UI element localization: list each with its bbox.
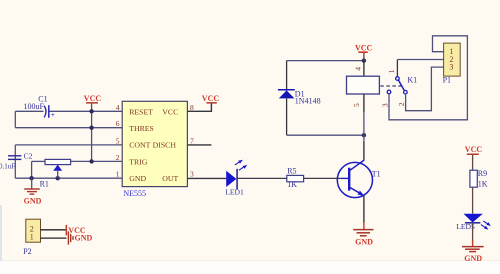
ground (under LED5) <box>462 240 484 263</box>
LED LED1 <box>225 160 247 197</box>
svg-text:1: 1 <box>30 233 34 242</box>
wire P2 pin1 to GND <box>41 237 67 239</box>
capacitor C2 <box>0 151 33 170</box>
svg-text:100uF: 100uF <box>24 102 45 111</box>
capacitor C1 <box>24 95 55 119</box>
ground (P2, rotated) <box>68 231 92 244</box>
wire 555 pin7 stub <box>187 144 211 146</box>
svg-text:+: + <box>51 111 55 119</box>
svg-text:GND: GND <box>24 196 42 205</box>
wire contact pin1 to P1 pin2 <box>397 59 443 61</box>
relay K1 coil <box>347 61 418 136</box>
wire D1 top line to VCC node <box>287 60 364 62</box>
wire R9 to LED5 <box>472 187 474 214</box>
svg-text:VCC: VCC <box>355 43 373 52</box>
svg-text:OUT: OUT <box>162 174 178 183</box>
svg-text:P2: P2 <box>23 247 31 256</box>
svg-text:LED1: LED1 <box>225 188 244 197</box>
wire 555 pin3 to LED1 <box>187 177 226 179</box>
svg-text:4: 4 <box>116 103 120 112</box>
svg-text:1: 1 <box>116 170 120 179</box>
wire R1 left lead down <box>31 161 33 178</box>
power VCC (relay) <box>355 43 373 60</box>
svg-text:T1: T1 <box>372 170 381 179</box>
power VCC (555 pin 8) <box>202 94 220 104</box>
relay contacts <box>380 60 407 108</box>
svg-text:2: 2 <box>116 153 120 162</box>
svg-text:K1: K1 <box>407 75 417 84</box>
wire VCC junction vertical x91.6 <box>91 103 93 161</box>
junction VCC/RESET node <box>89 109 93 113</box>
svg-text:1K: 1K <box>287 180 297 189</box>
svg-text:R9: R9 <box>478 169 487 178</box>
power VCC (right column) <box>465 145 483 170</box>
wire P2 pin2 to VCC <box>41 229 66 231</box>
svg-text:1K: 1K <box>478 179 488 188</box>
svg-text:CONT: CONT <box>129 141 150 150</box>
svg-text:VCC: VCC <box>84 94 102 103</box>
transistor T1 <box>337 135 380 222</box>
svg-text:5: 5 <box>116 136 120 145</box>
junction THRES node <box>89 126 93 130</box>
svg-text:NE555: NE555 <box>123 189 146 198</box>
wire RESET line y111 <box>15 110 122 112</box>
svg-text:C2: C2 <box>24 151 33 160</box>
svg-text:VCC: VCC <box>465 145 483 154</box>
svg-text:GND: GND <box>355 237 373 246</box>
junction R1 wiper to GND line <box>56 176 60 180</box>
power VCC (P2, rotated) <box>66 225 86 236</box>
svg-text:GND: GND <box>464 254 482 263</box>
diode D1 1N4148 <box>278 61 321 136</box>
svg-text:7: 7 <box>190 136 194 145</box>
connector P1 <box>443 43 461 84</box>
potentiometer R1 <box>40 159 71 188</box>
svg-text:1: 1 <box>387 69 396 73</box>
svg-text:R5: R5 <box>287 167 296 176</box>
svg-text:P1: P1 <box>443 75 451 84</box>
svg-text:6: 6 <box>116 119 120 128</box>
svg-text:RESET: RESET <box>129 107 153 116</box>
ground (under T1) <box>353 222 373 246</box>
resistor R5 <box>287 167 304 190</box>
wire LED5 to GND <box>472 223 474 241</box>
svg-text:GND: GND <box>129 174 146 183</box>
svg-text:VCC: VCC <box>202 94 220 103</box>
relay K1 mechanical link dashes <box>380 85 402 87</box>
wire 555 pin8 to VCC <box>187 103 211 111</box>
svg-text:8: 8 <box>190 103 194 112</box>
ground (under R1) <box>24 178 42 205</box>
power VCC (left, above 555 pin4) <box>84 94 102 103</box>
svg-text:R1: R1 <box>40 180 49 189</box>
resistor R9 <box>470 169 488 188</box>
svg-text:GND: GND <box>75 233 93 242</box>
svg-text:VCC: VCC <box>162 107 178 116</box>
wire contact pin2 to P1 pin3 <box>406 67 444 111</box>
svg-text:5: 5 <box>352 103 361 107</box>
IC NE555 <box>122 101 187 198</box>
junction node collector <box>362 133 366 137</box>
svg-text:3: 3 <box>380 103 389 107</box>
wire D1 bottom line to collector node <box>287 134 364 136</box>
LED LED5 <box>456 214 491 232</box>
svg-text:1N4148: 1N4148 <box>295 97 321 106</box>
svg-text:THRES: THRES <box>129 124 154 133</box>
pin number labels 555 left <box>116 103 120 179</box>
wire vertical left x15 between RESET and THRES <box>14 111 16 127</box>
junction TRIG node <box>89 159 93 163</box>
svg-text:DISCH: DISCH <box>153 141 177 150</box>
wire THRES line y127.7 <box>15 127 122 129</box>
wire TRIG line y161.4 <box>32 160 123 162</box>
svg-text:TRIG: TRIG <box>129 157 148 166</box>
junction node VCC-relay <box>362 58 366 62</box>
wire GND line y178.2 <box>15 177 122 179</box>
wire contact pin3 to P1 pin1 (outer loop) <box>389 36 467 120</box>
wire vertical left x15 through C2 <box>14 145 16 178</box>
junction R1 left to GND line <box>29 176 33 180</box>
connector P2 <box>23 219 40 256</box>
svg-text:3: 3 <box>449 62 453 71</box>
svg-text:4: 4 <box>353 67 362 71</box>
svg-text:2: 2 <box>397 102 406 106</box>
svg-text:3: 3 <box>190 170 194 179</box>
wire CONT line y144.9 <box>15 144 122 146</box>
svg-text:0.1uF: 0.1uF <box>0 162 15 170</box>
pin number labels 555 right <box>190 103 194 179</box>
wire LED1 to R5 <box>237 177 287 179</box>
wire R5 to T1 base <box>304 177 341 179</box>
